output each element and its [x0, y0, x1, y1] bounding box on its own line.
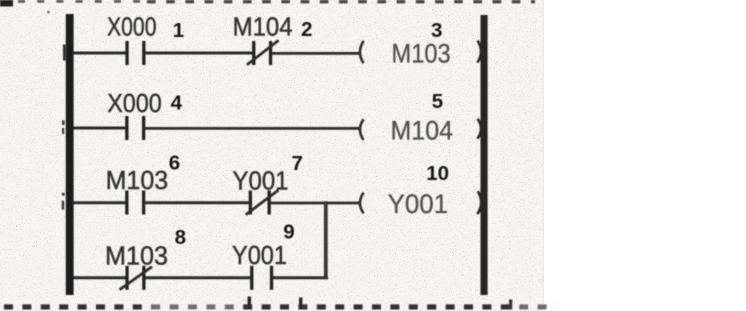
- svg-text:X000: X000: [107, 12, 157, 42]
- svg-text:M103: M103: [105, 241, 168, 271]
- svg-text:9: 9: [283, 220, 294, 243]
- svg-text:1: 1: [173, 19, 184, 42]
- svg-text:3: 3: [431, 19, 442, 42]
- svg-text:Y001: Y001: [233, 166, 289, 196]
- svg-text:M103: M103: [106, 165, 169, 195]
- svg-text:10: 10: [426, 162, 449, 185]
- svg-text:4: 4: [171, 92, 183, 115]
- svg-text:M104: M104: [233, 11, 293, 41]
- svg-text:Y001: Y001: [388, 189, 448, 219]
- svg-text:6: 6: [169, 152, 180, 175]
- svg-text:X000: X000: [107, 88, 162, 118]
- svg-text:Y001: Y001: [232, 240, 287, 270]
- svg-text:8: 8: [175, 226, 186, 249]
- svg-text:M104: M104: [391, 116, 454, 146]
- svg-text:2: 2: [301, 18, 312, 41]
- svg-text:5: 5: [432, 90, 443, 113]
- svg-text:M103: M103: [392, 39, 451, 69]
- svg-text:7: 7: [291, 152, 302, 175]
